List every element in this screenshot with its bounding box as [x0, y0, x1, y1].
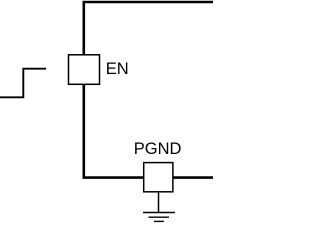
svg-text:EN: EN [106, 60, 129, 78]
svg-text:PGND: PGND [134, 140, 182, 158]
